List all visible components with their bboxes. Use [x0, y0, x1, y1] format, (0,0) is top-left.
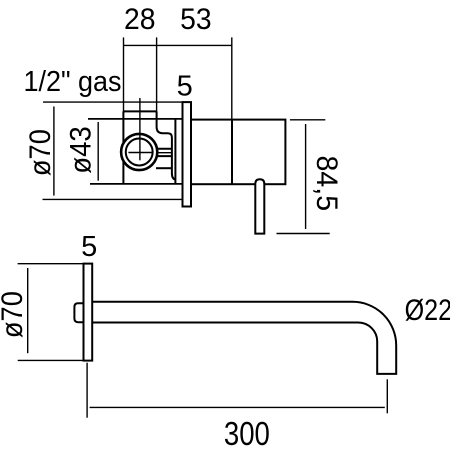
tick dia43 top / flange top line: [88, 118, 183, 120]
body lower line to tab: [156, 167, 172, 169]
ext line right (53): [231, 37, 233, 119]
dim line 28/53: [124, 44, 232, 46]
tick dia43 bottom / body bottom line: [90, 183, 183, 185]
centerline 1/2 gas: [139, 98, 141, 160]
handle body internal line: [231, 120, 233, 185]
crosshair horizontal: [128, 152, 152, 154]
spout fitting behind plate: [74, 303, 84, 322]
svg-text:1/2" gas: 1/2" gas: [24, 66, 122, 98]
svg-text:53: 53: [180, 3, 212, 36]
svg-text:5: 5: [81, 231, 97, 263]
svg-text:5: 5: [177, 71, 193, 103]
valve circle outer: [121, 134, 157, 170]
spout tube: [92, 302, 396, 374]
wall plate: [183, 102, 192, 206]
centerline stub to flange: [157, 152, 172, 154]
pipe top: [156, 148, 172, 150]
valve body right step + cartridge tab: [157, 111, 176, 179]
ext line 300 right: [386, 379, 388, 413]
svg-text:ø70: ø70: [0, 291, 29, 338]
svg-text:ø43: ø43: [65, 126, 98, 174]
valve circle inner: [126, 139, 153, 166]
lever: [255, 179, 264, 233]
svg-text:28: 28: [124, 3, 156, 36]
ext line left (28): [123, 37, 125, 111]
tick dia70 top: [43, 101, 183, 103]
dim line 300: [90, 406, 385, 408]
handle body: [191, 120, 285, 185]
dim line 84,5: [305, 124, 307, 229]
tick 84,5 bottom: [277, 233, 330, 235]
dim line dia70 (bottom drawing): [27, 268, 29, 353]
ext line 300 left: [86, 363, 88, 418]
pipe bottom: [156, 155, 172, 157]
tick 84,5 top: [290, 119, 325, 121]
svg-text:84,5: 84,5: [310, 156, 343, 212]
valve body top edge: [123, 110, 156, 112]
wall plate (bottom drawing): [84, 264, 93, 361]
ext line mid (28/53): [156, 37, 158, 111]
dim line dia70: [53, 107, 55, 196]
tick dia70 bottom (bottom drawing): [18, 359, 84, 361]
valve body left edge: [122, 111, 124, 183]
svg-text:300: 300: [224, 415, 270, 450]
svg-text:ø70: ø70: [24, 129, 57, 176]
flange edge: [174, 119, 176, 183]
crosshair vertical (lower part): [139, 134, 141, 160]
dim line dia43: [97, 122, 99, 181]
tick dia70 top (bottom drawing): [18, 263, 84, 265]
tick dia70 bottom: [43, 198, 183, 200]
svg-text:Ø22: Ø22: [405, 294, 450, 327]
